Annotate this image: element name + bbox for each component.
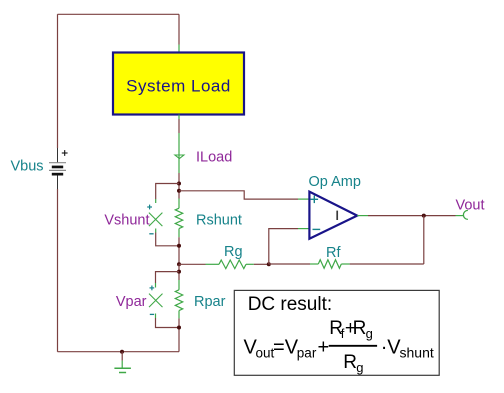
wire Rpar bottom to ground rail [178, 318, 180, 351]
svg-text:Rshunt: Rshunt [196, 212, 242, 228]
svg-text:Op Amp: Op Amp [309, 174, 361, 190]
resistor Rshunt [175, 199, 182, 238]
wire shunt bottom to node [178, 237, 180, 264]
wire Rf to node [269, 263, 310, 265]
wire from ILoad marker down to node [178, 173, 180, 199]
annotation box DC result [234, 290, 439, 375]
pin stub op amp + input [298, 198, 309, 200]
svg-text:Vout: Vout [456, 197, 485, 213]
junction node (ground tap) [120, 350, 124, 354]
pin stub Vout terminal [456, 215, 464, 217]
junction node (Vshunt - joins) [177, 244, 181, 248]
svg-text:Rpar: Rpar [194, 294, 226, 310]
block System Load [113, 53, 244, 115]
svg-text:Rg: Rg [224, 244, 243, 260]
svg-text:Rf: Rf [326, 245, 341, 261]
current marker ILoad (green wire segment with open arrow) [175, 133, 184, 173]
pin stub op amp output [357, 215, 368, 217]
junction node (Vpar + branch) [177, 270, 181, 274]
differential probe Vpar (X with + / -) [149, 286, 163, 315]
pin stub System Load bottom (green) [178, 115, 180, 120]
wire top horizontal from Vbus to System Load [58, 13, 180, 15]
wire Vbus negative pin stub [57, 176, 59, 190]
wire Vpar probe bottom bracket [156, 314, 180, 328]
wire Vshunt probe top bracket [156, 184, 179, 204]
svg-text:=: = [273, 337, 285, 359]
wire below System Load [178, 119, 180, 133]
junction node (shunt top / Vshunt +) [177, 182, 181, 186]
battery V1 Vbus [49, 150, 68, 175]
op-amp U1 (ideal) [309, 192, 357, 239]
svg-text:g: g [356, 360, 363, 375]
wire node to Vpar branch [178, 264, 180, 280]
junction node (Rg branch) [177, 262, 181, 266]
wire vertical into System Load top pin [178, 14, 180, 44]
junction node (Rg/Rf/inverting input) [267, 262, 271, 266]
svg-text:DC result:: DC result: [248, 294, 332, 315]
svg-text:R: R [353, 318, 367, 339]
svg-text:Vpar: Vpar [116, 294, 147, 310]
svg-text:R: R [343, 352, 357, 373]
resistor Rg [179, 260, 254, 269]
svg-text:ILoad: ILoad [196, 150, 232, 166]
resistor Rpar [175, 280, 182, 318]
junction node (op amp + branch) [177, 189, 181, 193]
wire Rg to feedback node [254, 263, 269, 265]
junction node (output/feedback) [422, 214, 426, 218]
junction node (Vpar - joins) [177, 326, 181, 330]
wire feedback horizontal to Rf [350, 263, 424, 265]
wire node to op amp noninverting input [179, 191, 298, 199]
svg-text:+: + [318, 337, 330, 359]
wire Vpar probe top bracket [156, 272, 180, 288]
wire left vertical upper (Vbus + to top) [57, 14, 59, 148]
ground 0 [114, 352, 130, 373]
wire left vertical lower (Vbus - to ground rail) [57, 189, 59, 352]
svg-text:Vshunt: Vshunt [104, 212, 149, 228]
svg-text:out: out [256, 345, 275, 360]
terminal Vout (open arc) [463, 210, 468, 219]
pin stub op amp - input [298, 228, 309, 230]
formula Vout = Vpar + (Rf+Rg)/Rg * Vshunt [244, 318, 434, 375]
wire Vshunt probe bottom bracket [156, 229, 179, 246]
svg-text:System Load: System Load [126, 77, 231, 96]
wire op amp output to Vout [368, 215, 456, 217]
wire bottom ground rail [58, 351, 180, 353]
svg-text:g: g [366, 326, 373, 341]
wire node to op amp inverting input [269, 229, 298, 265]
svg-text:shunt: shunt [400, 344, 434, 360]
resistor Rf [310, 260, 350, 269]
svg-text:par: par [297, 345, 317, 360]
svg-text:Vbus: Vbus [11, 159, 44, 175]
wire Vbus positive pin stub [57, 148, 59, 163]
differential probe Vshunt (X with + / -) [147, 205, 162, 234]
pin stub System Load top (green) [178, 45, 180, 53]
wire feedback vertical [423, 216, 425, 264]
